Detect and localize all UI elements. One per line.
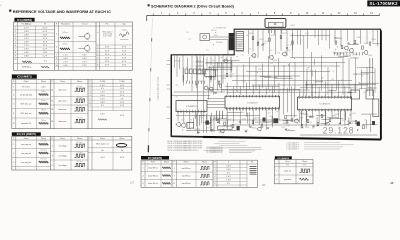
svg-text:8: 8	[15, 52, 16, 54]
wire	[219, 111, 221, 124]
svg-text:C118: C118	[336, 55, 340, 57]
resistor R121b	[329, 119, 331, 122]
wire	[222, 111, 224, 119]
svg-text:4: 4	[97, 50, 98, 52]
junction	[336, 45, 339, 48]
wire	[216, 111, 218, 121]
resistor R114	[217, 120, 219, 123]
wire	[283, 88, 285, 114]
wire	[300, 134, 378, 136]
wire	[325, 111, 327, 120]
wire	[187, 58, 189, 81]
wire	[203, 55, 205, 74]
svg-text:5: 5	[90, 98, 91, 100]
wire	[314, 29, 316, 38]
svg-text:0.2 V: 0.2 V	[43, 49, 48, 51]
svg-text:1.8 V: 1.8 V	[43, 52, 48, 54]
terminal stub	[196, 69, 204, 71]
wire	[321, 119, 329, 121]
wire	[194, 112, 196, 119]
wire	[239, 86, 241, 95]
svg-text:Wave: Wave	[77, 81, 83, 83]
wire	[225, 86, 279, 88]
svg-text:33: 33	[176, 85, 178, 87]
wire	[370, 115, 372, 132]
svg-text:R136: R136	[222, 78, 226, 80]
wire	[264, 76, 278, 78]
transformer T101 winding	[236, 32, 244, 52]
svg-text:Point: Point	[60, 80, 65, 83]
label IC6	[275, 156, 292, 159]
wire	[199, 56, 201, 70]
wire	[354, 84, 356, 92]
resistor R129b	[363, 126, 365, 129]
waveform sketch W6	[120, 32, 129, 37]
svg-text:R149: R149	[372, 39, 376, 41]
svg-text:3: 3	[276, 179, 277, 181]
wire	[280, 28, 282, 34]
wire	[290, 34, 330, 36]
transistor sketch T2	[85, 46, 90, 51]
svg-text:50Hz/Vp-p: 50Hz/Vp-p	[22, 66, 31, 68]
wire	[299, 89, 301, 96]
resistor R113	[369, 42, 371, 45]
svg-text:(1V) 5ms: (1V) 5ms	[76, 97, 82, 99]
wire	[252, 84, 368, 86]
resistor R104	[280, 36, 282, 39]
svg-text:0.047: 0.047	[258, 69, 262, 71]
table IC2	[12, 79, 132, 128]
terminal stub	[167, 118, 172, 120]
wire	[179, 57, 181, 69]
resistor R106	[210, 76, 212, 79]
svg-text:0.01: 0.01	[241, 54, 244, 56]
wire	[346, 52, 348, 55]
waveform W4	[60, 48, 70, 50]
svg-text:0.022: 0.022	[267, 113, 271, 115]
svg-text:ref. voltage: ref. voltage	[58, 145, 66, 148]
svg-text:6: 6	[52, 165, 53, 167]
svg-text:R1: R1	[186, 67, 188, 69]
svg-text:4.1 V: 4.1 V	[43, 42, 48, 44]
capacitor C102	[286, 47, 288, 50]
wire	[315, 70, 317, 95]
svg-text:(1V) 5ms: (1V) 5ms	[76, 106, 82, 108]
wire	[343, 55, 351, 57]
wire	[213, 118, 218, 120]
svg-text:0.047: 0.047	[305, 33, 309, 35]
waveform W3	[60, 37, 70, 39]
junction	[356, 66, 359, 69]
wire	[306, 68, 308, 89]
wire	[291, 33, 293, 58]
wire	[318, 111, 320, 124]
svg-text:R121: R121	[260, 39, 264, 41]
wire	[373, 43, 380, 45]
wire	[331, 111, 333, 120]
svg-text:0.047: 0.047	[242, 80, 246, 82]
wire	[218, 55, 220, 68]
wire	[286, 29, 288, 56]
svg-text:0.01: 0.01	[188, 39, 191, 41]
wire	[255, 121, 269, 123]
junction	[236, 55, 239, 58]
wire	[301, 111, 303, 126]
svg-text:3: 3	[15, 35, 16, 37]
transistor Q106	[350, 49, 354, 53]
svg-text:Wave: Wave	[202, 162, 208, 164]
transistor sketch T1	[85, 34, 90, 39]
terminal stub	[167, 64, 172, 66]
transistor Q115b	[326, 122, 330, 126]
wire	[274, 28, 276, 35]
svg-text:0.01: 0.01	[331, 79, 334, 81]
wire	[208, 87, 210, 99]
bracket marks	[250, 166, 257, 168]
wire	[277, 58, 279, 76]
svg-text:5: 5	[97, 54, 98, 56]
transistor Q113b	[221, 129, 225, 133]
wire	[307, 29, 309, 48]
waveform IC3 mid row	[75, 144, 85, 147]
wire	[287, 88, 289, 113]
wire	[183, 67, 185, 80]
wire	[294, 62, 296, 89]
svg-text:2: 2	[52, 146, 53, 148]
svg-text:Pin: Pin	[106, 24, 109, 26]
svg-text:IC5 (AN6675): IC5 (AN6675)	[148, 157, 162, 160]
wire	[226, 120, 228, 126]
svg-text:Q105: Q105	[251, 56, 255, 58]
wire	[328, 89, 337, 91]
wire	[334, 52, 336, 55]
wire	[233, 110, 235, 123]
svg-text:V (33): V (33)	[100, 81, 106, 83]
label IC3 IC4	[12, 132, 41, 136]
svg-text:IC1 (AN6650): IC1 (AN6650)	[17, 19, 32, 22]
svg-text:0.2 V: 0.2 V	[43, 56, 48, 58]
svg-text:7.4 V: 7.4 V	[24, 49, 29, 51]
wire	[369, 58, 371, 96]
label IC2	[12, 74, 37, 78]
wire	[265, 110, 267, 130]
label IC1	[14, 18, 34, 22]
wire	[314, 59, 316, 65]
svg-text:1.2 V: 1.2 V	[24, 45, 29, 47]
transistor Q108	[177, 122, 181, 126]
wire	[191, 56, 193, 91]
svg-text:7: 7	[90, 105, 91, 107]
svg-text:1uF: 1uF	[276, 111, 279, 113]
wire	[333, 52, 344, 54]
wire	[226, 83, 228, 95]
IC1 small block	[205, 70, 216, 77]
waveform IC5 row	[162, 167, 171, 169]
svg-text:NOTE: VOLTAGES MEASURED WITH V: NOTE: VOLTAGES MEASURED WITH V	[168, 149, 200, 152]
svg-text:2: 2	[215, 169, 216, 171]
wire	[327, 117, 339, 119]
resistor R110	[341, 46, 343, 49]
svg-text:Pin 1 OUT: Pin 1 OUT	[22, 86, 30, 88]
resistor R119	[307, 120, 309, 123]
svg-text:137: 137	[130, 182, 135, 185]
svg-text:R142: R142	[334, 38, 338, 40]
capacitor C103	[195, 83, 197, 86]
wire	[334, 37, 342, 39]
table IC6	[274, 160, 313, 184]
electrolytic C131	[206, 121, 209, 125]
wire	[344, 86, 346, 96]
resistor R128b	[355, 121, 357, 124]
svg-text:IC6 AN6676: IC6 AN6676	[319, 103, 331, 106]
svg-text:2: 2	[90, 88, 91, 90]
terminal stub	[167, 60, 172, 62]
svg-text:100: 100	[270, 63, 273, 65]
wire	[269, 29, 271, 56]
capacitor C109b	[267, 127, 269, 130]
svg-text:R145: R145	[357, 37, 361, 39]
svg-text:Q116: Q116	[368, 55, 372, 57]
wire	[353, 43, 358, 45]
svg-text:4: 4	[215, 176, 216, 178]
electrolytic C133	[263, 118, 266, 122]
svg-text:(1V) 5ms: (1V) 5ms	[76, 86, 82, 88]
resistor R108	[226, 74, 228, 77]
ground G2	[245, 131, 248, 132]
svg-text:29.128: 29.128	[323, 125, 355, 135]
wire	[196, 55, 198, 88]
svg-text:0.01: 0.01	[310, 70, 313, 72]
wire	[358, 52, 360, 55]
resistor R107	[218, 81, 220, 84]
wire	[265, 88, 267, 95]
resistor R105	[292, 41, 294, 44]
wire	[210, 36, 235, 38]
wire	[206, 114, 208, 132]
wire	[362, 124, 377, 126]
svg-text:3: 3	[97, 47, 98, 49]
wire	[359, 87, 367, 89]
svg-text:Pin voltage: Pin voltage	[22, 23, 33, 26]
wire	[340, 29, 342, 47]
svg-text:220: 220	[363, 92, 366, 94]
terminal stub	[196, 61, 204, 63]
wire	[271, 116, 273, 124]
wire	[216, 75, 300, 77]
svg-text:R118: R118	[249, 33, 253, 35]
waveform IC3 row	[39, 152, 49, 154]
wire	[206, 62, 345, 64]
capacitor C101	[262, 43, 264, 46]
svg-text:14: 14	[390, 181, 394, 185]
svg-text:( 1V, 2ms ): ( 1V, 2ms )	[76, 152, 84, 154]
wire	[230, 57, 232, 72]
svg-text:error amp out: error amp out	[21, 143, 32, 146]
wire	[210, 116, 212, 126]
waveform IC2 row	[39, 112, 49, 114]
svg-text:8: 8	[13, 113, 14, 115]
resistor R126b	[301, 125, 303, 128]
resistor R102	[257, 42, 259, 45]
wire	[321, 55, 323, 91]
wire	[252, 110, 254, 126]
svg-text:18: 18	[51, 109, 53, 111]
wire	[315, 81, 323, 83]
transistor Q109	[182, 123, 186, 127]
wire	[278, 83, 280, 95]
svg-text:1: 1	[143, 168, 144, 170]
wire	[300, 29, 302, 45]
wire	[186, 130, 240, 132]
svg-text:0.5V 2ms: 0.5V 2ms	[40, 158, 47, 160]
svg-text:1uF: 1uF	[186, 112, 189, 114]
svg-text:Wave: Wave	[302, 161, 307, 163]
wire	[232, 80, 352, 82]
svg-text:Point: Point	[24, 137, 29, 140]
wire	[226, 56, 228, 74]
wire	[366, 29, 368, 44]
svg-text:MOT drive out: MOT drive out	[21, 112, 32, 115]
wire	[291, 87, 293, 117]
svg-text:5: 5	[15, 42, 16, 44]
svg-text:1V/5ms: 1V/5ms	[62, 44, 68, 46]
waveform IC2 mid row	[75, 107, 85, 111]
wire	[368, 87, 377, 89]
wire	[316, 117, 318, 127]
wire	[329, 29, 331, 48]
wire	[263, 121, 279, 123]
wire	[297, 29, 299, 44]
terminal stub	[196, 73, 204, 75]
wire	[355, 57, 357, 92]
wire	[338, 80, 340, 96]
wire	[371, 58, 373, 96]
transistor Q112	[345, 124, 349, 128]
wire	[318, 87, 320, 96]
wire	[337, 52, 339, 55]
svg-text:lamp drive: lamp drive	[284, 179, 291, 181]
svg-text:9: 9	[56, 61, 57, 63]
relay RL1	[351, 90, 360, 99]
wire	[332, 118, 344, 120]
svg-text:W: W	[251, 162, 253, 164]
svg-text:SL-1700MK2: SL-1700MK2	[369, 1, 398, 6]
electrolytic C134	[357, 122, 360, 126]
wire	[270, 28, 272, 34]
waveform IC2 row	[39, 103, 49, 105]
ground G5	[356, 130, 359, 131]
wire	[262, 29, 264, 51]
svg-text:R152: R152	[214, 117, 218, 119]
resistor R182	[291, 118, 293, 121]
terminal stub	[167, 88, 172, 90]
transistor Q111b	[295, 119, 299, 123]
resistor array RA1	[185, 69, 188, 74]
svg-text:0.01: 0.01	[219, 55, 222, 57]
wire	[217, 62, 219, 90]
wire	[306, 111, 308, 122]
svg-text:15: 15	[51, 101, 53, 103]
wire	[302, 113, 308, 115]
wire	[268, 28, 270, 34]
resistor R101	[252, 37, 254, 40]
svg-text:0.01: 0.01	[206, 50, 209, 52]
svg-text:0.5V 2ms: 0.5V 2ms	[40, 149, 47, 151]
ruler scale	[147, 15, 380, 17]
table IC3	[12, 136, 132, 170]
svg-text:R6: R6	[310, 122, 312, 124]
wire	[248, 112, 250, 127]
wire	[231, 60, 233, 71]
svg-text:0.5V 2ms: 0.5V 2ms	[40, 141, 47, 143]
svg-text:IC5 AN6675: IC5 AN6675	[247, 101, 259, 104]
svg-text:Vp: Vp	[121, 150, 123, 152]
svg-text:3: 3	[13, 153, 14, 155]
wire	[257, 29, 259, 58]
wire	[172, 95, 210, 97]
wire	[236, 67, 238, 93]
wire	[226, 110, 228, 129]
waveform W1	[22, 61, 32, 63]
svg-text:1: 1	[13, 144, 14, 146]
svg-text:0.022: 0.022	[352, 113, 356, 115]
table IC5	[141, 160, 257, 187]
wire	[222, 89, 310, 91]
wire	[252, 85, 254, 95]
transistor Q101	[252, 54, 256, 58]
svg-text:0.1V / 0.5ms: 0.1V / 0.5ms	[103, 36, 112, 38]
IC5 block	[225, 96, 280, 108]
wire	[259, 85, 261, 95]
wire	[221, 62, 223, 93]
svg-text:C115: C115	[199, 81, 203, 83]
wire	[340, 52, 342, 55]
wire	[252, 29, 254, 52]
svg-text:220: 220	[195, 112, 198, 114]
wire	[331, 84, 333, 96]
svg-text:7: 7	[97, 61, 98, 63]
wire	[283, 120, 292, 122]
wire	[283, 65, 285, 90]
junction	[282, 83, 285, 86]
svg-text:DRIVE CIRCUIT PCB: DRIVE CIRCUIT PCB	[157, 76, 160, 100]
svg-text:Wave: Wave	[41, 138, 47, 140]
wire	[325, 111, 327, 127]
svg-text:0.022: 0.022	[286, 125, 290, 127]
wire	[311, 71, 313, 77]
wire	[312, 84, 314, 96]
waveform IC3 mid row	[75, 154, 85, 157]
wire	[200, 114, 206, 116]
svg-text:11: 11	[173, 183, 175, 185]
wire	[174, 56, 176, 68]
svg-text:2: 2	[15, 31, 16, 33]
svg-text:(1V) 5ms: (1V) 5ms	[76, 117, 82, 119]
wire	[230, 124, 345, 126]
svg-text:220: 220	[312, 128, 315, 130]
wire	[325, 81, 327, 96]
svg-text:1. C601 2200uF 3: 1. C601 2200uF 3	[286, 149, 299, 151]
transistor Q114b	[258, 127, 262, 131]
svg-text:a: a	[97, 32, 98, 34]
board frame	[171, 29, 380, 139]
transistor Q121	[209, 87, 213, 91]
regulator block	[373, 99, 379, 117]
relay RL2	[366, 90, 374, 99]
svg-text:0.4 V: 0.4 V	[24, 52, 29, 54]
capacitor C110b	[312, 125, 314, 128]
wire	[348, 58, 350, 92]
